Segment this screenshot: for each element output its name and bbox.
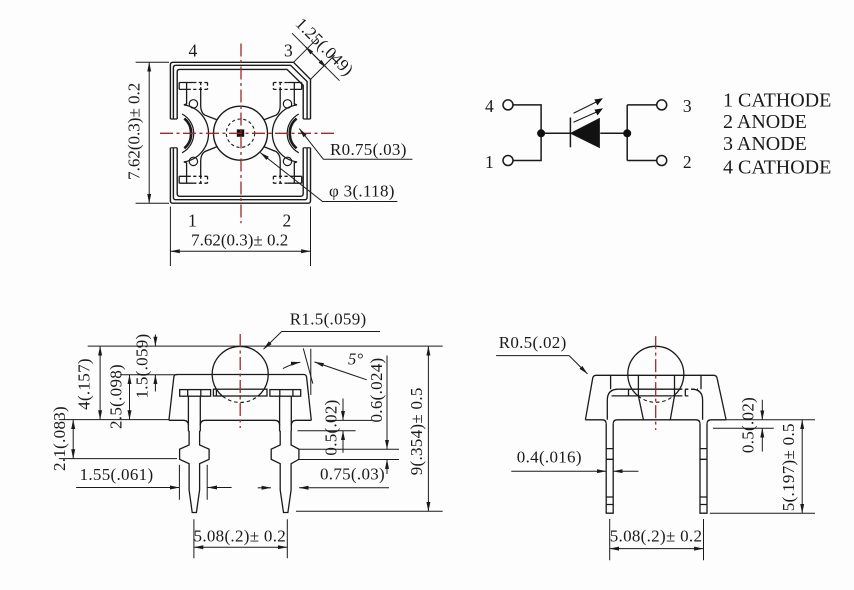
svg-text:1.5(.059): 1.5(.059) (132, 333, 151, 398)
svg-text:4(.157): 4(.157) (75, 358, 94, 410)
svg-text:1: 1 (188, 211, 197, 231)
svg-text:4: 4 (188, 41, 197, 61)
svg-text:0.4(.016): 0.4(.016) (517, 448, 582, 467)
svg-text:1: 1 (485, 152, 494, 172)
svg-text:0.75(.03): 0.75(.03) (320, 464, 385, 483)
svg-text:2.1(.083): 2.1(.083) (50, 406, 69, 471)
svg-text:5.08(.2)± 0.2: 5.08(.2)± 0.2 (610, 527, 703, 546)
svg-text:9(.354)± 0.5: 9(.354)± 0.5 (407, 387, 426, 475)
svg-text:4 CATHODE: 4 CATHODE (723, 156, 831, 178)
svg-text:3: 3 (284, 41, 293, 61)
svg-text:φ 3(.118): φ 3(.118) (329, 181, 395, 200)
svg-text:2.5(.098): 2.5(.098) (106, 364, 125, 429)
svg-text:2: 2 (683, 152, 692, 172)
svg-text:0.6(.024): 0.6(.024) (367, 357, 386, 422)
svg-text:R1.5(.059): R1.5(.059) (290, 309, 367, 328)
svg-text:5°: 5° (348, 350, 364, 369)
svg-text:0.5(.02): 0.5(.02) (322, 399, 341, 455)
svg-text:5(.197)± 0.5: 5(.197)± 0.5 (779, 423, 798, 511)
svg-text:2 ANODE: 2 ANODE (723, 111, 807, 133)
svg-text:7.62(0.3)± 0.2: 7.62(0.3)± 0.2 (125, 83, 144, 180)
svg-text:R0.75(.03): R0.75(.03) (330, 140, 407, 159)
svg-text:3 ANODE: 3 ANODE (723, 133, 807, 155)
svg-text:1 CATHODE: 1 CATHODE (723, 90, 831, 112)
svg-text:2: 2 (282, 211, 291, 231)
svg-text:4: 4 (485, 96, 494, 116)
svg-text:7.62(0.3)± 0.2: 7.62(0.3)± 0.2 (191, 231, 288, 250)
svg-text:5.08(.2)± 0.2: 5.08(.2)± 0.2 (194, 527, 287, 546)
svg-text:1.55(.061): 1.55(.061) (80, 465, 154, 484)
svg-text:3: 3 (683, 96, 692, 116)
svg-text:0.5(.02): 0.5(.02) (739, 397, 758, 453)
svg-text:R0.5(.02): R0.5(.02) (499, 333, 567, 352)
